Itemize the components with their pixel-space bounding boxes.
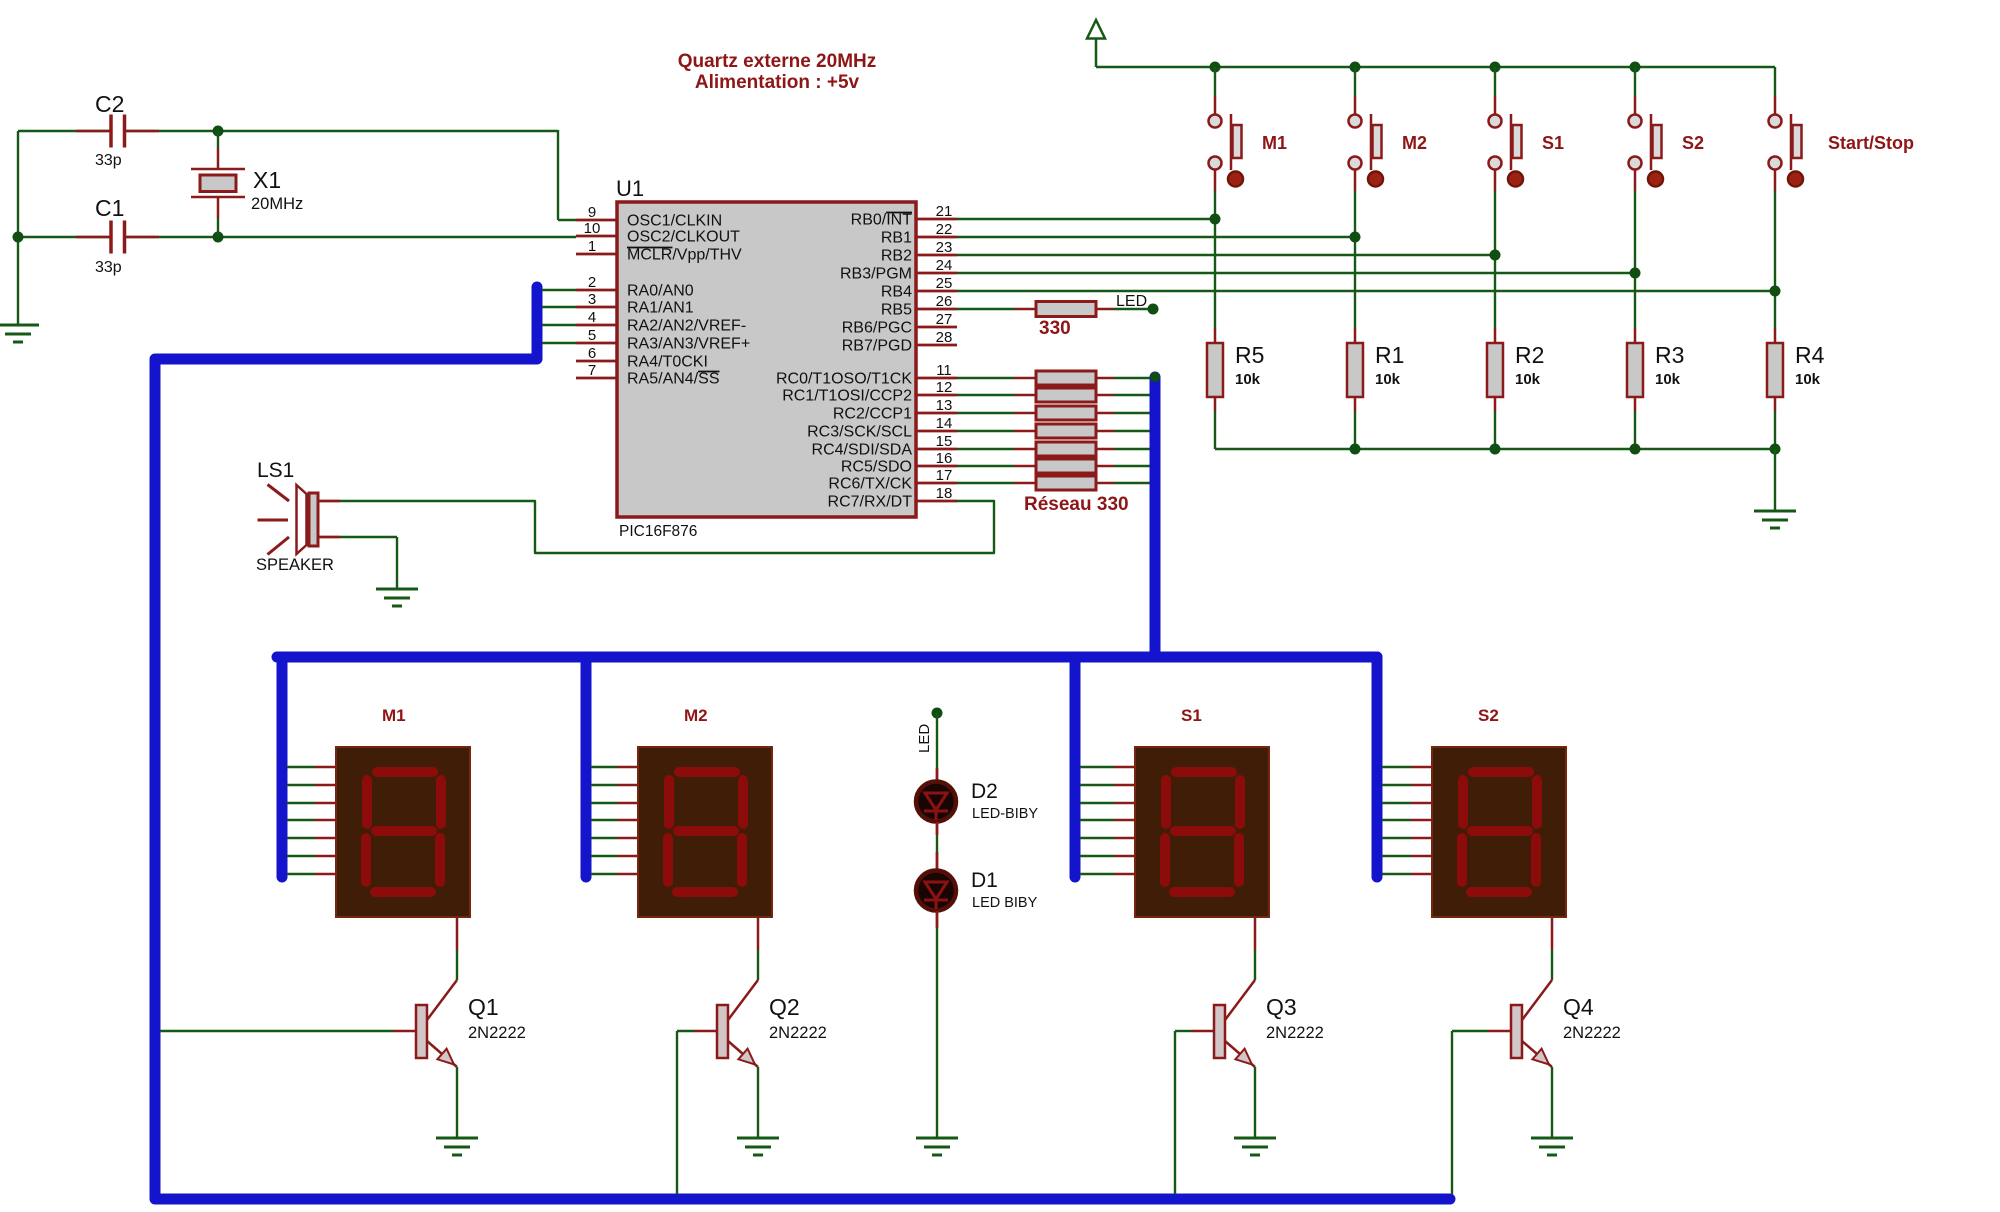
svg-text:RC1/T1OSI/CCP2: RC1/T1OSI/CCP2 [782, 388, 912, 405]
svg-text:6: 6 [588, 345, 596, 362]
svg-text:LED-BIBY: LED-BIBY [972, 806, 1038, 822]
svg-text:RC3/SCK/SCL: RC3/SCK/SCL [807, 424, 912, 441]
svg-text:RA5/AN4/SS: RA5/AN4/SS [627, 371, 719, 388]
svg-text:OSC2/CLKOUT: OSC2/CLKOUT [627, 229, 740, 246]
svg-text:RA2/AN2/VREF-: RA2/AN2/VREF- [627, 318, 746, 335]
svg-text:D2: D2 [971, 780, 998, 803]
svg-text:2N2222: 2N2222 [1266, 1024, 1324, 1042]
svg-text:10k: 10k [1515, 371, 1541, 388]
svg-text:9: 9 [588, 204, 596, 221]
svg-text:D1: D1 [971, 869, 998, 892]
svg-text:RA1/AN1: RA1/AN1 [627, 300, 694, 317]
svg-text:RB1: RB1 [881, 230, 912, 247]
svg-text:28: 28 [936, 329, 953, 346]
svg-text:33p: 33p [95, 152, 122, 169]
svg-text:26: 26 [936, 293, 953, 310]
svg-text:S1: S1 [1181, 706, 1202, 725]
svg-text:RC0/T1OSO/T1CK: RC0/T1OSO/T1CK [776, 371, 912, 388]
svg-text:17: 17 [936, 467, 953, 484]
svg-text:R4: R4 [1795, 342, 1825, 368]
svg-text:Q4: Q4 [1563, 994, 1594, 1020]
svg-text:R2: R2 [1515, 342, 1544, 368]
svg-text:RA4/T0CKI: RA4/T0CKI [627, 354, 708, 371]
svg-text:22: 22 [936, 221, 953, 238]
svg-text:M1: M1 [382, 706, 406, 725]
svg-text:2N2222: 2N2222 [1563, 1024, 1621, 1042]
svg-text:330: 330 [1039, 318, 1071, 339]
svg-text:S1: S1 [1542, 133, 1564, 153]
svg-text:33p: 33p [95, 259, 122, 276]
svg-text:Q1: Q1 [468, 994, 499, 1020]
svg-text:LS1: LS1 [257, 459, 294, 482]
svg-text:LED: LED [916, 724, 933, 753]
svg-text:OSC1/CLKIN: OSC1/CLKIN [627, 213, 722, 230]
svg-text:11: 11 [936, 362, 952, 379]
svg-text:21: 21 [936, 203, 953, 220]
svg-text:2N2222: 2N2222 [769, 1024, 827, 1042]
svg-text:RB3/PGM: RB3/PGM [840, 266, 912, 283]
svg-text:RC4/SDI/SDA: RC4/SDI/SDA [812, 442, 913, 459]
svg-text:18: 18 [936, 485, 953, 502]
svg-text:R3: R3 [1655, 342, 1684, 368]
svg-text:Réseau 330: Réseau 330 [1024, 494, 1129, 515]
svg-text:PIC16F876: PIC16F876 [619, 523, 697, 540]
svg-text:24: 24 [936, 257, 953, 274]
svg-text:2: 2 [588, 274, 596, 291]
svg-text:15: 15 [936, 433, 953, 450]
svg-text:1: 1 [588, 238, 596, 255]
svg-text:16: 16 [936, 450, 953, 467]
svg-text:RC5/SDO: RC5/SDO [841, 459, 912, 476]
svg-text:M2: M2 [684, 706, 708, 725]
svg-text:C1: C1 [95, 195, 124, 221]
svg-text:20MHz: 20MHz [251, 195, 303, 213]
svg-text:RA3/AN3/VREF+: RA3/AN3/VREF+ [627, 336, 750, 353]
svg-text:M2: M2 [1402, 133, 1427, 153]
svg-text:RC6/TX/CK: RC6/TX/CK [828, 476, 912, 493]
svg-text:25: 25 [936, 275, 953, 292]
svg-text:Start/Stop: Start/Stop [1828, 133, 1914, 153]
svg-text:27: 27 [936, 311, 953, 328]
svg-text:S2: S2 [1478, 706, 1499, 725]
svg-text:14: 14 [936, 415, 953, 432]
svg-text:7: 7 [588, 362, 596, 379]
svg-text:RC7/RX/DT: RC7/RX/DT [828, 494, 913, 511]
svg-text:LED BIBY: LED BIBY [972, 895, 1038, 911]
svg-text:RB7/PGD: RB7/PGD [842, 338, 912, 355]
svg-text:4: 4 [588, 309, 596, 326]
svg-text:LED: LED [1116, 293, 1147, 310]
svg-text:Q3: Q3 [1266, 994, 1297, 1020]
svg-text:10k: 10k [1375, 371, 1401, 388]
svg-text:RB6/PGC: RB6/PGC [842, 320, 912, 337]
svg-text:13: 13 [936, 397, 953, 414]
svg-text:SPEAKER: SPEAKER [256, 556, 334, 574]
svg-text:Quartz externe 20MHz: Quartz externe 20MHz [678, 51, 877, 72]
svg-text:R5: R5 [1235, 342, 1264, 368]
svg-text:S2: S2 [1682, 133, 1704, 153]
svg-text:MCLR/Vpp/THV: MCLR/Vpp/THV [627, 247, 742, 264]
svg-text:RB5: RB5 [881, 302, 912, 319]
svg-text:10k: 10k [1655, 371, 1681, 388]
svg-text:RB4: RB4 [881, 284, 912, 301]
svg-text:RA0/AN0: RA0/AN0 [627, 283, 694, 300]
svg-text:5: 5 [588, 327, 596, 344]
svg-text:2N2222: 2N2222 [468, 1024, 526, 1042]
svg-text:RB2: RB2 [881, 248, 912, 265]
svg-text:12: 12 [936, 379, 953, 396]
svg-text:3: 3 [588, 291, 596, 308]
svg-text:M1: M1 [1262, 133, 1287, 153]
svg-text:RB0/INT: RB0/INT [851, 212, 913, 229]
svg-text:10k: 10k [1235, 371, 1261, 388]
svg-text:23: 23 [936, 239, 953, 256]
svg-text:10: 10 [584, 220, 601, 237]
svg-text:C2: C2 [95, 91, 124, 117]
svg-text:RC2/CCP1: RC2/CCP1 [833, 406, 912, 423]
svg-text:Alimentation : +5v: Alimentation : +5v [695, 72, 860, 93]
svg-text:R1: R1 [1375, 342, 1404, 368]
svg-text:U1: U1 [616, 176, 644, 201]
svg-text:Q2: Q2 [769, 994, 800, 1020]
svg-text:10k: 10k [1795, 371, 1821, 388]
svg-text:X1: X1 [253, 167, 281, 193]
